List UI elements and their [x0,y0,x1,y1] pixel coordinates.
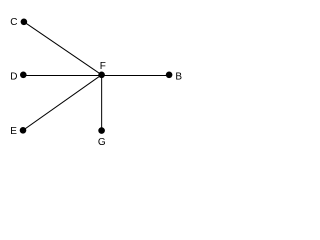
svg-text:E: E [10,126,17,137]
svg-text:B: B [175,72,182,83]
edge E-F [23,75,102,131]
svg-text:G: G [98,137,106,148]
node G [98,127,105,134]
node B [166,72,173,79]
edge C-F [24,22,102,75]
node F [98,72,105,79]
node E [20,127,27,134]
svg-text:C: C [10,17,17,28]
edge F-B [102,75,170,77]
node D [20,72,27,79]
svg-text:F: F [100,61,106,72]
svg-text:D: D [10,72,17,83]
edge D-F [23,75,101,77]
node C [21,19,28,26]
edge F-G [101,75,103,131]
